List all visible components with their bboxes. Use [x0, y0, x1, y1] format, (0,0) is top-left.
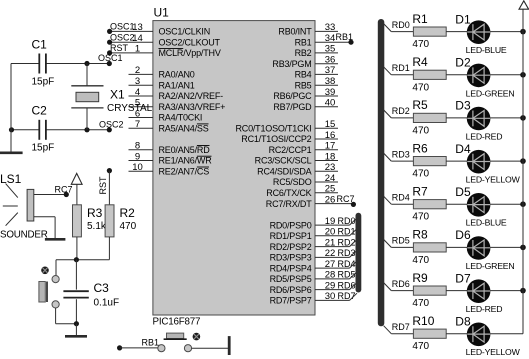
node RD6 — [392, 279, 410, 289]
node RD0 — [392, 20, 410, 30]
crystal X1 — [71, 64, 152, 130]
svg-text:R3: R3 — [87, 206, 103, 220]
svg-text:0.1uF: 0.1uF — [94, 298, 120, 309]
svg-text:16: 16 — [325, 130, 336, 141]
svg-text:RB1: RB1 — [295, 37, 312, 47]
svg-text:7: 7 — [135, 119, 140, 130]
svg-text:470: 470 — [412, 341, 429, 352]
wire RD7 to R10 — [391, 333, 413, 335]
junction rail row 7 — [520, 288, 526, 294]
wire button/C3 bottom join — [56, 321, 79, 336]
LED D6 LED-GREEN — [455, 228, 514, 271]
speaker LS1 SOUNDER — [0, 172, 48, 241]
svg-text:38: 38 — [325, 76, 336, 87]
svg-text:470: 470 — [412, 82, 429, 93]
svg-text:RD5: RD5 — [392, 236, 410, 246]
svg-text:R8: R8 — [412, 228, 428, 242]
svg-text:37: 37 — [325, 65, 336, 76]
junction rail row 4 — [520, 158, 526, 164]
svg-text:2: 2 — [135, 65, 140, 76]
svg-text:30: 30 — [325, 291, 336, 302]
capacitor C2 — [32, 104, 55, 154]
svg-text:15: 15 — [325, 119, 336, 130]
resistor R3 5.1k — [73, 184, 107, 259]
wire OSC1 net: C1 to crystal to terminal — [11, 61, 112, 66]
svg-text:15pF: 15pF — [32, 143, 55, 154]
svg-text:470: 470 — [412, 298, 429, 309]
node RD1 — [392, 63, 410, 73]
svg-text:15pF: 15pF — [32, 77, 55, 88]
op-amp U1 body: PIC16F877 microcontroller — [153, 21, 315, 315]
svg-text:RB0/INT: RB0/INT — [278, 27, 312, 37]
label U1 — [154, 6, 170, 20]
resistor R2 470 — [105, 171, 137, 260]
svg-text:RD2: RD2 — [392, 106, 410, 116]
capacitor C3 0.1uF — [63, 260, 119, 324]
svg-text:X1: X1 — [110, 88, 125, 102]
svg-text:RC5/SDO: RC5/SDO — [273, 177, 312, 187]
wire RD0 to R1 — [391, 31, 413, 33]
svg-text:OSC2: OSC2 — [99, 120, 124, 130]
bus entry row 4 — [384, 153, 392, 161]
svg-text:R4: R4 — [412, 55, 428, 69]
svg-text:D7: D7 — [455, 271, 471, 285]
wire D8 to rail — [490, 333, 523, 335]
resistor R5 470 — [412, 98, 446, 136]
svg-text:17: 17 — [325, 141, 336, 152]
svg-text:RC0/T1OSO/T1CKI: RC0/T1OSO/T1CKI — [235, 123, 311, 133]
svg-text:OSC2/CLKOUT: OSC2/CLKOUT — [159, 37, 221, 47]
wire R1 to D1 — [446, 31, 467, 33]
svg-text:LED-GREEN: LED-GREEN — [466, 88, 515, 98]
wire RD2 to R5 — [391, 117, 413, 119]
svg-text:R1: R1 — [412, 12, 428, 26]
svg-text:RD5/PSP5: RD5/PSP5 — [270, 274, 312, 284]
svg-text:RD0: RD0 — [392, 20, 410, 30]
svg-text:RST: RST — [98, 176, 108, 195]
svg-text:MCLR/Vpp/THV: MCLR/Vpp/THV — [159, 48, 221, 58]
svg-text:RD7: RD7 — [338, 291, 356, 301]
resistor R9 470 — [412, 271, 446, 309]
svg-text:RD7/PSP7: RD7/PSP7 — [270, 296, 312, 306]
svg-text:RB6/PGC: RB6/PGC — [273, 91, 312, 101]
svg-text:RD0: RD0 — [338, 216, 356, 226]
svg-text:RD4: RD4 — [338, 259, 356, 269]
svg-text:470: 470 — [412, 212, 429, 223]
bus (chip side, RD0-RD7) — [356, 213, 362, 293]
svg-text:RC1/T1OSI/CCP2: RC1/T1OSI/CCP2 — [241, 134, 311, 144]
svg-text:LED-YELLOW: LED-YELLOW — [466, 347, 521, 357]
node RB1 (pin34) — [336, 32, 354, 45]
wire R4 to D2 — [446, 74, 467, 76]
svg-text:RB5: RB5 — [295, 80, 312, 90]
svg-text:RC3/SCK/SCL: RC3/SCK/SCL — [255, 156, 312, 166]
svg-text:R9: R9 — [412, 271, 428, 285]
wire RD4 to R7 — [391, 203, 413, 205]
node RD2 — [392, 106, 410, 116]
svg-text:RA3/AN3/VREF+: RA3/AN3/VREF+ — [159, 102, 226, 112]
wire RD6 to R9 — [391, 290, 413, 292]
svg-text:RD6/PSP6: RD6/PSP6 — [270, 285, 312, 295]
power arrow (above R3) — [71, 173, 82, 184]
svg-text:RST: RST — [110, 43, 129, 53]
LED D7 LED-RED — [455, 271, 502, 314]
svg-text:9: 9 — [135, 151, 140, 162]
wire RB1 button to rail — [192, 347, 230, 349]
push button (sounder circuit) — [39, 260, 59, 324]
node OSC1 (pin13 stub) — [110, 22, 135, 32]
svg-text:RB1: RB1 — [142, 338, 160, 348]
svg-text:R2: R2 — [120, 206, 136, 220]
resistor R8 470 — [412, 228, 446, 266]
ground (left rail) — [0, 152, 23, 155]
svg-text:3: 3 — [135, 76, 140, 87]
svg-text:CRYSTAL: CRYSTAL — [107, 103, 153, 114]
wire R9 to D7 — [446, 290, 467, 292]
svg-text:D4: D4 — [455, 142, 471, 156]
svg-text:27: 27 — [325, 259, 336, 270]
U1 right pin names — [235, 27, 312, 306]
svg-text:D8: D8 — [455, 315, 471, 329]
svg-text:C2: C2 — [32, 104, 48, 118]
svg-text:RD3: RD3 — [338, 248, 356, 258]
wire R8 to D6 — [446, 246, 467, 248]
svg-text:D1: D1 — [455, 12, 471, 26]
svg-text:LED-BLUE: LED-BLUE — [466, 45, 507, 55]
svg-text:RD3/PSP3: RD3/PSP3 — [270, 253, 312, 263]
bus entry row 5 — [384, 196, 392, 204]
wire D7 to rail — [490, 290, 523, 292]
resistor R1 470 — [412, 12, 446, 50]
svg-text:RD1/PSP1: RD1/PSP1 — [270, 231, 312, 241]
wire D6 to rail — [490, 246, 523, 248]
svg-text:RE0/AN5/RD: RE0/AN5/RD — [159, 145, 211, 155]
wire R7 to D5 — [446, 203, 467, 205]
junction rail row 5 — [520, 201, 526, 207]
svg-text:U1: U1 — [154, 6, 170, 20]
node OSC2 (pin14 stub) — [110, 32, 135, 42]
svg-text:34: 34 — [325, 33, 336, 44]
wire D3 to rail — [490, 117, 523, 119]
wire left rail to ground — [10, 64, 12, 153]
svg-text:20: 20 — [325, 227, 336, 238]
svg-text:RC6/TX/CK: RC6/TX/CK — [266, 188, 311, 198]
svg-text:23: 23 — [325, 162, 336, 173]
svg-text:RA0/AN0: RA0/AN0 — [159, 70, 195, 80]
ground (C3) — [65, 335, 87, 338]
bus entries chip side — [350, 218, 358, 301]
node RD7 — [392, 322, 410, 332]
power arrow (rail top) — [519, 1, 529, 9]
svg-text:RD6: RD6 — [392, 279, 410, 289]
bus entry row 3 — [384, 110, 392, 118]
svg-text:OSC1/CLKIN: OSC1/CLKIN — [159, 27, 211, 37]
svg-text:RD1: RD1 — [392, 63, 410, 73]
wire R6 to D4 — [446, 160, 467, 162]
node OSC2 (crystal wire label) — [99, 120, 124, 130]
svg-text:39: 39 — [325, 87, 336, 98]
svg-text:18: 18 — [325, 151, 336, 162]
svg-text:21: 21 — [325, 237, 336, 248]
bus entry row 2 — [384, 67, 392, 75]
svg-text:RD7: RD7 — [392, 322, 410, 332]
svg-text:RD0/PSP0: RD0/PSP0 — [270, 220, 312, 230]
svg-text:RD5: RD5 — [338, 270, 356, 280]
svg-text:R10: R10 — [412, 314, 434, 328]
svg-text:RC2/CCP1: RC2/CCP1 — [269, 145, 312, 155]
svg-text:4: 4 — [135, 87, 140, 98]
bus entry row 8 — [384, 326, 392, 334]
svg-text:LED-GREEN: LED-GREEN — [466, 261, 515, 271]
svg-text:LED-RED: LED-RED — [466, 131, 503, 141]
svg-text:D3: D3 — [455, 99, 471, 113]
node RC7 (sounder) — [55, 185, 73, 195]
resistor R4 470 — [412, 55, 446, 93]
svg-text:470: 470 — [412, 125, 429, 136]
svg-text:SOUNDER: SOUNDER — [0, 230, 48, 241]
svg-text:OSC1: OSC1 — [110, 22, 135, 32]
wire OSC2 net: C2 to crystal to terminal — [9, 127, 112, 132]
svg-text:RA1/AN1: RA1/AN1 — [159, 80, 195, 90]
wire D1 to rail — [490, 31, 523, 33]
LED D4 LED-YELLOW — [455, 142, 520, 185]
bus (LED side) — [378, 19, 385, 326]
svg-text:1: 1 — [135, 44, 140, 55]
svg-text:RE2/AN7/CS: RE2/AN7/CS — [159, 167, 210, 177]
svg-text:RD2/PSP2: RD2/PSP2 — [270, 242, 312, 252]
resistor R7 470 — [412, 184, 446, 222]
svg-text:LED-BLUE: LED-BLUE — [466, 218, 507, 228]
wire speaker top to RC7 node — [34, 192, 69, 197]
bus entry row 7 — [384, 283, 392, 291]
node RD5 — [392, 236, 410, 246]
label PIC16F877 — [153, 317, 201, 328]
RD0..RD7 net labels at chip bus — [338, 216, 356, 301]
svg-text:24: 24 — [325, 173, 336, 184]
svg-text:33: 33 — [325, 22, 336, 33]
svg-text:RC4/SDI/SDA: RC4/SDI/SDA — [257, 167, 312, 177]
svg-text:OSC1: OSC1 — [98, 53, 123, 63]
svg-text:36: 36 — [325, 55, 336, 66]
LED D3 LED-RED — [455, 99, 502, 142]
svg-text:RB3/PGM: RB3/PGM — [272, 59, 311, 69]
svg-text:RA4/T0CKI: RA4/T0CKI — [159, 113, 203, 123]
svg-text:C3: C3 — [94, 281, 110, 295]
svg-text:OSC2: OSC2 — [110, 32, 135, 42]
svg-text:RB4: RB4 — [295, 70, 312, 80]
wire D4 to rail — [490, 160, 523, 162]
svg-text:LED-YELLOW: LED-YELLOW — [466, 175, 521, 185]
svg-text:RD4/PSP4: RD4/PSP4 — [270, 263, 312, 273]
svg-text:470: 470 — [412, 169, 429, 180]
bus entry row 1 — [384, 24, 392, 32]
node OSC1 (crystal wire label) — [98, 53, 123, 63]
svg-text:R5: R5 — [412, 98, 428, 112]
U1 left pin stubs with numbers — [107, 22, 153, 173]
svg-text:25: 25 — [325, 184, 336, 195]
svg-text:RD4: RD4 — [392, 192, 410, 202]
node RC7 (pin26) — [337, 194, 357, 207]
wire R3/R2 bottoms joined — [56, 257, 109, 262]
svg-text:22: 22 — [325, 248, 336, 259]
wire R10 to D8 — [446, 333, 467, 335]
wire RD3 to R6 — [391, 160, 413, 162]
svg-text:8: 8 — [135, 141, 140, 152]
svg-text:R6: R6 — [412, 141, 428, 155]
svg-text:5.1k: 5.1k — [87, 221, 107, 232]
svg-text:LED-RED: LED-RED — [466, 304, 503, 314]
svg-text:D6: D6 — [455, 228, 471, 242]
svg-text:RE1/AN6/WR: RE1/AN6/WR — [159, 156, 213, 166]
svg-text:R7: R7 — [412, 184, 428, 198]
node RB1 (button wire) — [117, 338, 159, 351]
push button RB1 — [158, 333, 192, 352]
svg-text:D5: D5 — [455, 185, 471, 199]
power rail right — [522, 9, 524, 334]
wire RD5 to R8 — [391, 246, 413, 248]
LED D2 LED-GREEN — [455, 56, 514, 99]
LED D8 LED-YELLOW — [455, 315, 520, 358]
svg-text:40: 40 — [325, 98, 336, 109]
svg-text:470: 470 — [412, 255, 429, 266]
resistor R10 470 — [412, 314, 446, 352]
wire speaker bottom to ground — [34, 217, 55, 239]
bus entry row 6 — [384, 239, 392, 247]
svg-text:LS1: LS1 — [0, 172, 22, 186]
svg-text:19: 19 — [325, 216, 336, 227]
ground bar (RB1 button) — [228, 336, 231, 355]
wire D2 to rail — [490, 74, 523, 76]
svg-text:RA5/AN4/SS: RA5/AN4/SS — [159, 123, 209, 133]
U1 left pin names — [159, 27, 226, 177]
svg-text:10: 10 — [132, 162, 143, 173]
svg-text:470: 470 — [412, 39, 429, 50]
node RD4 — [392, 192, 410, 202]
svg-text:RD2: RD2 — [338, 237, 356, 247]
junction rail row 1 — [520, 29, 526, 35]
junction rail row 6 — [520, 245, 526, 251]
wire D5 to rail — [490, 203, 523, 205]
LED D1 LED-BLUE — [455, 12, 507, 55]
screw mark (sounder button) — [41, 267, 49, 275]
svg-text:RA2/AN2/VREF-: RA2/AN2/VREF- — [159, 91, 224, 101]
svg-text:RD6: RD6 — [338, 280, 356, 290]
svg-text:PIC16F877: PIC16F877 — [153, 317, 201, 328]
resistor R6 470 — [412, 141, 446, 179]
svg-text:C1: C1 — [32, 38, 48, 52]
U1 right pin stubs with numbers — [315, 22, 353, 302]
node RST (pin1 stub) — [110, 43, 129, 53]
svg-text:470: 470 — [120, 221, 137, 232]
node RST (R2 top) — [98, 168, 112, 195]
junction rail row 2 — [520, 72, 526, 78]
svg-text:RC7: RC7 — [55, 185, 73, 195]
capacitor C1 — [32, 38, 55, 88]
svg-text:D2: D2 — [455, 56, 471, 70]
wire RD1 to R4 — [391, 74, 413, 76]
svg-text:RB2: RB2 — [295, 48, 312, 58]
junction rail row 3 — [520, 115, 526, 121]
screw mark (RB1 button) — [193, 333, 201, 341]
LED D5 LED-BLUE — [455, 185, 507, 228]
svg-text:28: 28 — [325, 270, 336, 281]
svg-text:RB7/PGD: RB7/PGD — [273, 102, 312, 112]
node RD3 — [392, 149, 410, 159]
svg-text:29: 29 — [325, 280, 336, 291]
ground (sounder) — [45, 238, 66, 241]
svg-text:26: 26 — [325, 194, 336, 205]
wire R5 to D3 — [446, 117, 467, 119]
svg-text:RD3: RD3 — [392, 149, 410, 159]
svg-text:RC7/RX/DT: RC7/RX/DT — [266, 199, 312, 209]
svg-text:RD1: RD1 — [338, 227, 356, 237]
svg-text:35: 35 — [325, 44, 336, 55]
